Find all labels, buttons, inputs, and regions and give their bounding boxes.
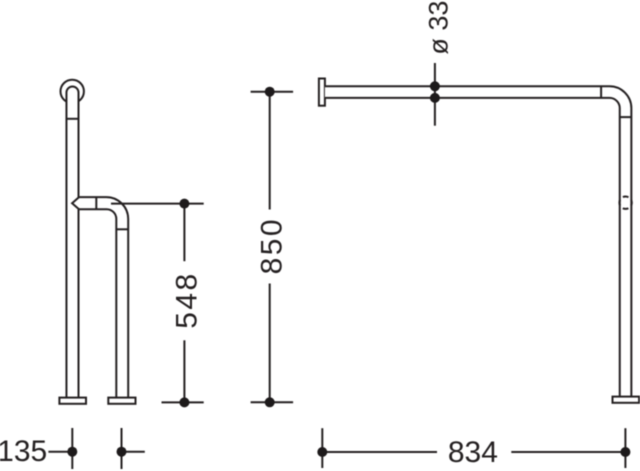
horizontal rail + elbow + right leg body (white fill)	[325, 86, 631, 396]
dia 33 upper dot	[430, 81, 440, 91]
dim 850 bottom cross line	[251, 401, 294, 403]
dim 135 right lead line	[122, 451, 145, 453]
rail joint line	[600, 86, 602, 98]
dim 850 top dot	[265, 87, 275, 97]
dim 135 right dot	[117, 447, 127, 457]
dim 834 right line	[511, 451, 625, 453]
stub/elbow outer edge	[79, 197, 128, 398]
rail inner edge	[325, 98, 620, 397]
floor plate 1	[59, 398, 86, 404]
svg-text:135: 135	[0, 435, 47, 468]
dim 135 left dot	[67, 447, 77, 457]
floor plate 3	[613, 397, 640, 403]
rail outer edge	[325, 86, 631, 396]
wall flange (front view)	[319, 79, 325, 106]
floor plate 2	[108, 398, 135, 404]
stub pointed end	[72, 197, 79, 209]
concealed fixing (dashed circle)	[619, 197, 631, 209]
svg-text:850: 850	[255, 219, 288, 274]
dim 850 vertical line lower	[269, 284, 271, 403]
svg-text:ø 33: ø 33	[424, 1, 454, 55]
dim 850 bottom dot	[265, 397, 275, 407]
dim 834 right tick	[624, 428, 626, 468]
svg-text:548: 548	[170, 274, 203, 329]
stub joint line	[95, 197, 97, 209]
dim 548 bottom cross line	[162, 401, 204, 403]
dim 834 right dot	[620, 447, 630, 457]
dim 135 left tick	[71, 428, 73, 469]
dim 548 bottom dot	[179, 397, 189, 407]
tube 1 joint line	[66, 118, 78, 120]
dim 834 left line	[322, 451, 437, 453]
dim 834 left tick	[321, 428, 323, 468]
dim 834 left dot	[317, 447, 327, 457]
post tube 1 body (white fill over rose)	[66, 87, 78, 398]
dim 548 vertical line lower	[183, 340, 185, 402]
dim 850 vertical line upper	[269, 92, 271, 210]
dim 135 left lead line	[48, 451, 72, 453]
post tube 1 outline	[66, 87, 78, 398]
dim 548 vertical line upper	[183, 204, 185, 262]
dia 33 lower dot	[430, 93, 440, 103]
wall rose circle (side view)	[60, 80, 83, 103]
dia 33 marker line	[434, 63, 436, 126]
dim 548 top cross line	[111, 203, 204, 205]
stub/elbow inner edge	[79, 209, 116, 397]
tube 2 joint line	[116, 228, 128, 230]
dim 850 top cross line	[251, 91, 294, 93]
right leg joint line	[620, 116, 632, 118]
dim 548 top dot	[179, 199, 189, 209]
stub + elbow + post tube 2 body (white fill)	[72, 197, 128, 398]
svg-text:834: 834	[448, 436, 498, 469]
dim 135 right tick	[121, 428, 123, 469]
